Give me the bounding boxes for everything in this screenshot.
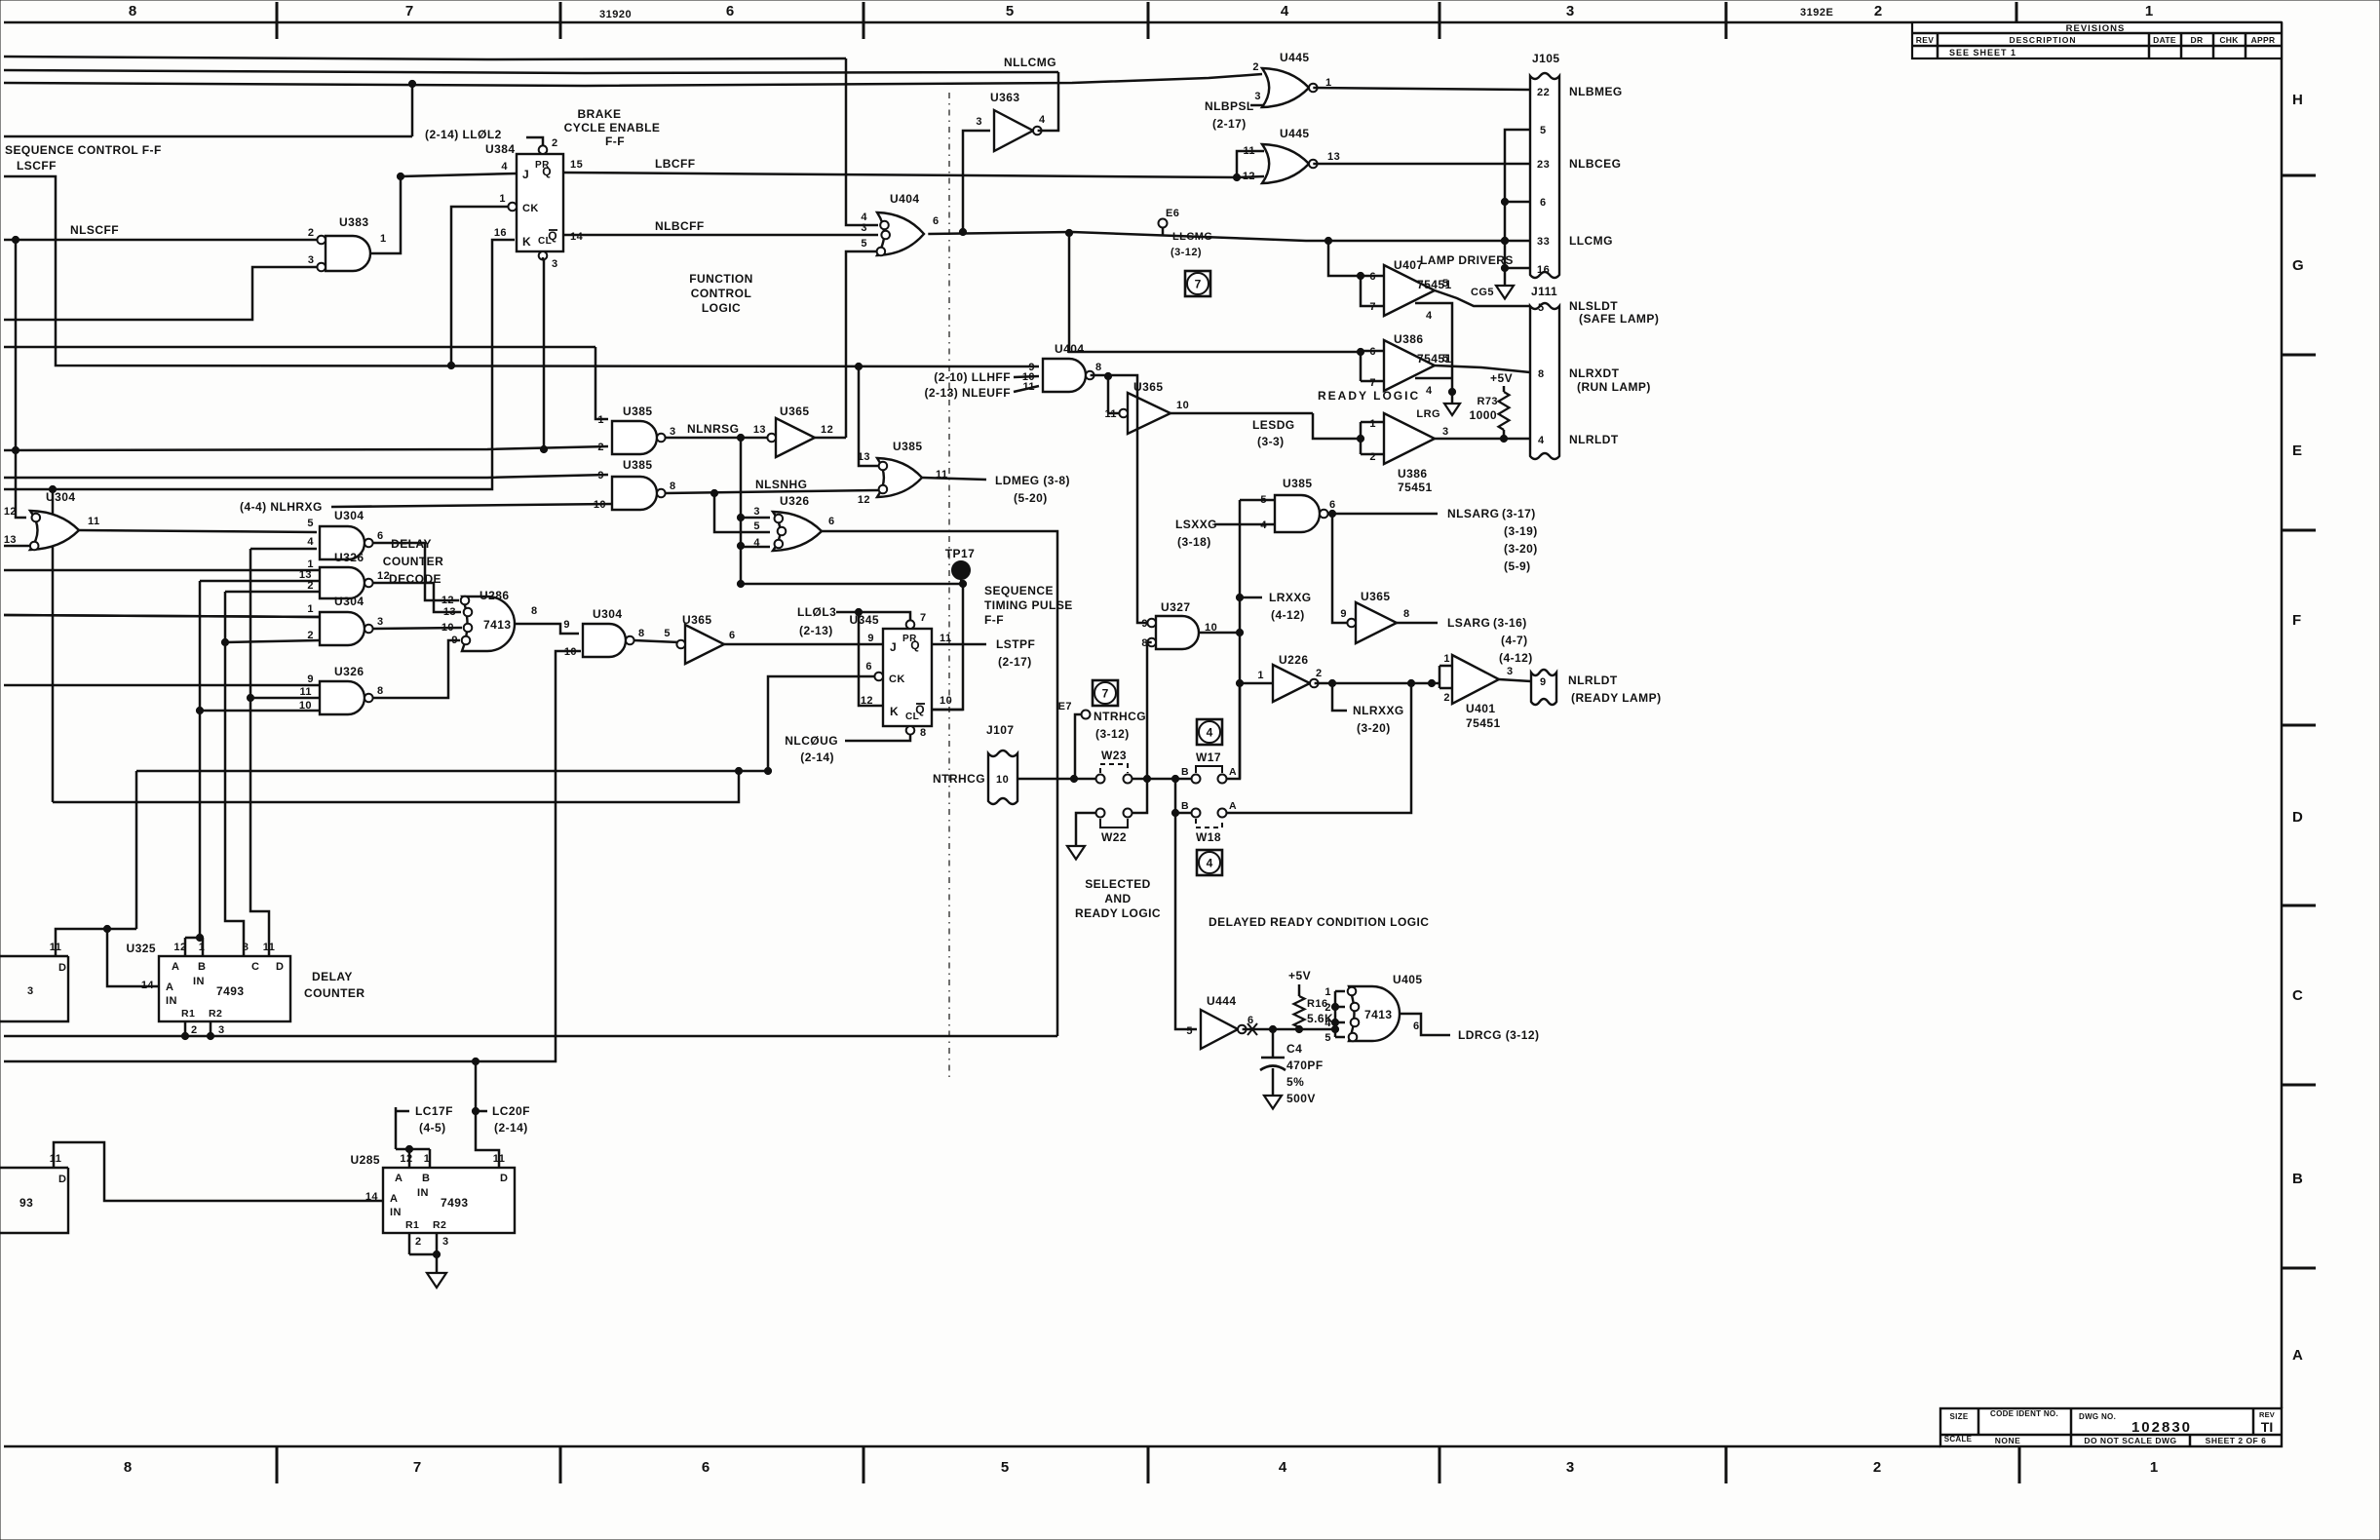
wire NLNRSG vert x760 — [740, 438, 743, 584]
wire LDRCG out — [1400, 1014, 1450, 1035]
svg-text:W17: W17 — [1196, 751, 1221, 764]
svg-text:B: B — [1181, 766, 1189, 778]
svg-text:500V: 500V — [1286, 1092, 1316, 1105]
svg-text:12: 12 — [861, 695, 873, 707]
svg-text:5: 5 — [861, 238, 867, 250]
svg-text:J: J — [522, 168, 529, 181]
svg-text:U325: U325 — [127, 942, 157, 955]
gate U363 inverter — [994, 110, 1033, 151]
wire U445b pin11 feed — [1237, 151, 1264, 177]
svg-text:3: 3 — [1442, 426, 1449, 438]
wire U304d pin1 feed — [4, 615, 320, 617]
svg-text:1: 1 — [1324, 986, 1331, 998]
svg-text:75451: 75451 — [1466, 716, 1501, 730]
svg-text:CK: CK — [522, 203, 539, 214]
svg-text:AND: AND — [1104, 892, 1131, 905]
wire U384 CL drop x558 — [543, 257, 546, 449]
counter U285 7493 — [383, 1168, 515, 1233]
wire vert x868 to U404a pin4 — [846, 58, 878, 225]
svg-text:(3-12): (3-12) — [1095, 727, 1130, 741]
ground CG5 — [1496, 286, 1514, 299]
gate U304a NOR — [30, 511, 79, 550]
wire left counter2 D to U285 A IN — [54, 1142, 383, 1201]
wire W18 B vert down to U444 — [1175, 813, 1197, 1029]
gate U304e NAND — [583, 624, 626, 657]
svg-text:G: G — [2292, 257, 2304, 274]
svg-text:(5-20): (5-20) — [1014, 491, 1048, 505]
svg-text:(4-5): (4-5) — [419, 1121, 446, 1135]
svg-text:NLRXDT: NLRXDT — [1569, 366, 1620, 380]
wire CK tap from LSCFF line — [451, 207, 509, 366]
svg-text:Q: Q — [915, 703, 925, 716]
svg-text:8: 8 — [124, 1459, 132, 1476]
wire vert x16 — [15, 240, 18, 450]
svg-text:U326: U326 — [334, 665, 365, 678]
svg-text:IN: IN — [193, 976, 205, 987]
svg-text:1: 1 — [2145, 3, 2153, 19]
svg-text:(4-12): (4-12) — [1499, 651, 1533, 665]
svg-text:3: 3 — [377, 616, 384, 628]
jumper W18 — [1192, 809, 1201, 818]
svg-text:U326: U326 — [334, 551, 365, 564]
svg-text:5: 5 — [307, 518, 314, 529]
ground below C4 — [1264, 1096, 1282, 1109]
wire U407 input bracket — [1361, 276, 1384, 306]
svg-text:9: 9 — [1340, 608, 1347, 620]
svg-text:7493: 7493 — [441, 1196, 469, 1210]
wire U365 LESDG in — [1108, 412, 1119, 415]
wire U386b out to J111-4 — [1435, 438, 1530, 441]
svg-text:LC20F: LC20F — [492, 1104, 530, 1118]
svg-text:1: 1 — [380, 233, 387, 245]
svg-text:+5V: +5V — [1288, 969, 1311, 982]
svg-text:3: 3 — [1566, 1459, 1574, 1476]
wire U405 input bracket — [1334, 991, 1337, 1037]
wire left counter D to U325 A IN — [56, 929, 159, 986]
svg-text:2: 2 — [1316, 668, 1323, 679]
wire U385d pin13 feed — [859, 366, 879, 466]
wire NLSARG branch to U365d — [1332, 514, 1352, 623]
svg-text:IN: IN — [390, 1207, 402, 1218]
revisions block — [1912, 22, 2282, 58]
svg-text:1: 1 — [307, 603, 314, 615]
svg-text:A: A — [1229, 800, 1237, 812]
U384 pin2 PR bubble — [539, 145, 548, 154]
wire U404a pin5 feed — [846, 251, 877, 438]
wire U445a out to J105-22 — [1313, 88, 1530, 90]
svg-text:6: 6 — [1413, 1020, 1420, 1032]
svg-text:H: H — [2292, 92, 2303, 108]
svg-text:B: B — [198, 961, 206, 973]
wire U386a out to J111-8 — [1435, 366, 1530, 372]
wire U385c pin5 feed — [1240, 499, 1275, 502]
wire U326 out to x1085 — [822, 531, 1057, 1036]
svg-text:B: B — [2292, 1171, 2303, 1187]
svg-text:U304: U304 — [334, 509, 365, 522]
svg-text:E: E — [2292, 443, 2302, 459]
svg-text:CHK: CHK — [2219, 35, 2239, 45]
svg-text:1000: 1000 — [1470, 408, 1498, 422]
svg-text:1: 1 — [1443, 653, 1450, 665]
svg-text:E7: E7 — [1058, 701, 1072, 712]
svg-text:2: 2 — [191, 1024, 198, 1036]
wire J105 pin5/6/16 tie bus — [1505, 130, 1530, 286]
svg-text:DR: DR — [2191, 35, 2204, 45]
gate U365 LESDG buffer — [1128, 393, 1171, 434]
svg-text:DELAY: DELAY — [391, 537, 432, 551]
svg-text:U383: U383 — [339, 215, 369, 229]
svg-text:3: 3 — [442, 1236, 449, 1248]
svg-text:6: 6 — [1329, 499, 1336, 511]
svg-text:10: 10 — [940, 695, 952, 707]
svg-text:R1: R1 — [405, 1219, 419, 1231]
svg-text:5: 5 — [1324, 1032, 1331, 1044]
svg-text:(3-16): (3-16) — [1493, 616, 1527, 630]
svg-text:75451: 75451 — [1398, 481, 1433, 494]
wire U304b out to U286 — [373, 543, 459, 600]
wire U326 pin4 feed — [741, 546, 770, 549]
svg-text:U386: U386 — [1398, 467, 1428, 481]
svg-text:TI: TI — [2261, 1419, 2273, 1435]
decode vertical xA — [199, 581, 202, 938]
wire U226 input — [1240, 682, 1273, 685]
wire U444 out — [1243, 1028, 1335, 1031]
svg-text:C: C — [251, 961, 259, 973]
wire NLNRSG branch to TP17 line — [741, 584, 963, 710]
svg-text:COUNTER: COUNTER — [383, 555, 443, 568]
svg-text:BRAKE: BRAKE — [578, 107, 622, 121]
svg-text:SEE SHEET 1: SEE SHEET 1 — [1949, 48, 2016, 58]
svg-text:12: 12 — [858, 494, 870, 506]
wire bus y585 U326a pin1 — [4, 569, 321, 572]
wire bus y490 to U385b pin9 — [4, 475, 608, 478]
svg-text:3: 3 — [1507, 666, 1514, 677]
svg-text:(2-17): (2-17) — [1212, 117, 1247, 131]
svg-text:U365: U365 — [682, 613, 712, 627]
wire U345 Q out LSTPF — [932, 643, 986, 646]
svg-text:31920: 31920 — [599, 9, 632, 20]
svg-text:D: D — [276, 961, 284, 973]
svg-text:1: 1 — [2150, 1459, 2158, 1476]
svg-text:2: 2 — [552, 137, 558, 149]
svg-text:U404: U404 — [1055, 342, 1085, 356]
wire reset bus y1063 — [4, 1035, 1057, 1038]
svg-text:3: 3 — [861, 222, 867, 234]
svg-text:9: 9 — [867, 633, 874, 644]
svg-text:(3-12): (3-12) — [1171, 247, 1202, 258]
svg-text:3: 3 — [1566, 3, 1574, 19]
svg-text:11: 11 — [88, 516, 100, 527]
svg-text:4: 4 — [1260, 520, 1267, 531]
wire bus y462 to U385a pin2 — [4, 446, 608, 450]
svg-text:9: 9 — [1540, 676, 1547, 688]
wire U365 LESDG out — [1171, 412, 1313, 415]
wire bus y356 — [4, 346, 595, 349]
svg-text:2: 2 — [1443, 692, 1450, 704]
svg-text:NTRHCG: NTRHCG — [1094, 710, 1146, 723]
wire NLLCMG loop — [1038, 72, 1058, 131]
svg-text:15: 15 — [570, 159, 583, 171]
svg-text:7: 7 — [413, 1459, 421, 1476]
svg-text:F-F: F-F — [605, 135, 625, 148]
wire LL0L3 to K — [859, 612, 883, 706]
connector J111 — [1530, 303, 1559, 459]
svg-text:23: 23 — [1537, 159, 1550, 171]
wire U345 CL NLC0UG — [845, 735, 910, 741]
wire NLSARG out — [1328, 513, 1438, 516]
svg-text:(3-20): (3-20) — [1357, 721, 1391, 735]
wire U383 output to node — [370, 176, 401, 253]
wire U345 Qbar out — [932, 709, 963, 712]
gate U407 driver 75451 — [1384, 265, 1435, 316]
wire U407 out to J111-5 — [1435, 290, 1530, 306]
svg-text:(3-20): (3-20) — [1504, 542, 1538, 556]
svg-text:7: 7 — [1369, 377, 1376, 389]
svg-text:5: 5 — [1442, 353, 1449, 365]
svg-text:NLCØUG: NLCØUG — [785, 734, 838, 748]
U285 R pins to ground — [408, 1233, 411, 1254]
svg-text:REV: REV — [1916, 35, 1934, 45]
wire NLBPSL to U445a pin3 — [1250, 104, 1264, 107]
wire U345 CK feed — [768, 676, 874, 771]
svg-text:5: 5 — [1260, 494, 1267, 506]
svg-text:6: 6 — [933, 215, 940, 227]
svg-text:4: 4 — [1279, 1459, 1287, 1476]
svg-text:4: 4 — [1538, 435, 1545, 446]
wire NLHRXG to pin10 — [331, 504, 612, 507]
svg-text:Q: Q — [542, 165, 552, 178]
wire U404a output to J105-33 LLCMG — [928, 232, 1530, 241]
svg-text:NLSLDT: NLSLDT — [1569, 299, 1618, 313]
svg-text:4: 4 — [1207, 726, 1213, 740]
svg-text:READY LOGIC: READY LOGIC — [1318, 389, 1420, 403]
wire U401 bracket — [1432, 682, 1440, 685]
svg-text:LBCFF: LBCFF — [655, 157, 696, 171]
wire U304b pin4 feed — [250, 548, 317, 551]
svg-text:3: 3 — [753, 506, 760, 518]
svg-text:A: A — [2292, 1347, 2303, 1364]
svg-text:COUNTER: COUNTER — [304, 986, 365, 1000]
gate U383 NAND — [326, 236, 370, 271]
right zone ticks — [2282, 174, 2316, 177]
gate U386a driver 75451 — [1384, 340, 1435, 391]
svg-text:DELAYED READY CONDITION: DELAYED READY CONDITION LOGIC — [1209, 915, 1429, 929]
svg-text:9: 9 — [451, 635, 458, 646]
wire U326b pin11 feed — [250, 697, 320, 700]
svg-text:5: 5 — [1442, 278, 1449, 289]
svg-text:NLSCFF: NLSCFF — [70, 223, 119, 237]
boxed 7 symbol E6 — [1185, 271, 1210, 296]
svg-text:(2-14) LLØL2: (2-14) LLØL2 — [425, 128, 502, 141]
svg-text:NLBCEG: NLBCEG — [1569, 157, 1621, 171]
svg-text:10: 10 — [441, 622, 454, 634]
svg-text:NLNRSG: NLNRSG — [687, 422, 739, 436]
svg-text:93: 93 — [19, 1196, 33, 1210]
svg-text:7413: 7413 — [1364, 1008, 1393, 1021]
svg-text:LLØL3: LLØL3 — [797, 605, 836, 619]
gate U304b NAND — [320, 526, 365, 559]
wire LLHFF label — [1014, 376, 1039, 377]
svg-text:C4: C4 — [1286, 1042, 1302, 1056]
wire U383 pin3 feed — [4, 267, 322, 320]
svg-text:8: 8 — [1095, 362, 1102, 373]
wire U386a input feed — [1069, 233, 1361, 352]
svg-text:SELECTED: SELECTED — [1085, 877, 1151, 891]
wire U327 pin8 feed — [1147, 641, 1152, 644]
svg-text:3: 3 — [670, 426, 676, 438]
wire y823 run — [53, 771, 739, 802]
svg-text:11: 11 — [263, 942, 276, 953]
wire LSCFF entry — [4, 176, 1039, 366]
U407 pin4 stub — [1415, 303, 1452, 392]
svg-text:D: D — [500, 1173, 508, 1184]
wire U304d pin2 feed — [225, 640, 320, 642]
svg-text:Q: Q — [910, 638, 920, 652]
U325 R pins to reset bus — [184, 1021, 187, 1036]
gate U385a NAND — [612, 421, 657, 454]
svg-text:LOGIC: LOGIC — [702, 301, 741, 315]
svg-text:B: B — [1181, 800, 1189, 812]
svg-text:A: A — [390, 1193, 398, 1205]
svg-text:J111: J111 — [1531, 285, 1557, 298]
wire U326a pin2 feed — [225, 591, 320, 594]
svg-text:CK: CK — [889, 674, 905, 685]
wire W22 left to ground — [1076, 813, 1096, 846]
svg-text:11: 11 — [940, 633, 952, 644]
svg-text:2: 2 — [1324, 1002, 1331, 1014]
wire junction to U385d — [855, 363, 862, 369]
svg-text:DECODE: DECODE — [389, 572, 441, 586]
svg-text:U363: U363 — [990, 91, 1020, 104]
svg-text:4: 4 — [1207, 857, 1213, 870]
gate U326d NOR3 — [773, 512, 822, 551]
svg-text:CONTROL: CONTROL — [691, 287, 751, 300]
svg-text:NLSNHG: NLSNHG — [755, 478, 807, 491]
svg-text:6: 6 — [1369, 346, 1376, 358]
svg-text:D: D — [58, 962, 66, 974]
capacitor C4 — [1272, 1029, 1275, 1058]
svg-text:5: 5 — [1001, 1459, 1009, 1476]
connector J107 — [988, 751, 1017, 804]
svg-text:(2-14): (2-14) — [800, 751, 834, 764]
U384 CL bubble pin3 — [539, 251, 548, 260]
svg-text:6: 6 — [828, 516, 835, 527]
svg-text:LRG: LRG — [1416, 408, 1440, 420]
connector J105 — [1530, 73, 1559, 278]
svg-text:U304: U304 — [334, 595, 365, 608]
svg-text:NONE: NONE — [1995, 1436, 2021, 1445]
gate U445a NOR — [1262, 68, 1309, 107]
svg-text:2: 2 — [1873, 1459, 1881, 1476]
bottom zone ticks — [276, 1446, 279, 1483]
svg-text:U445: U445 — [1280, 51, 1310, 64]
svg-text:DESCRIPTION: DESCRIPTION — [2009, 35, 2076, 45]
svg-text:33: 33 — [1537, 236, 1550, 248]
svg-text:U404: U404 — [890, 192, 920, 206]
svg-text:1: 1 — [1369, 418, 1376, 430]
svg-text:(2-13) NLEUFF: (2-13) NLEUFF — [924, 386, 1011, 400]
svg-text:LDRCG (3-12): LDRCG (3-12) — [1458, 1028, 1539, 1042]
svg-text:Q: Q — [548, 229, 557, 243]
wire U386b bracket — [1360, 422, 1363, 454]
wire U326 pin3 feed — [741, 517, 770, 520]
svg-text:7: 7 — [920, 612, 927, 624]
svg-text:2: 2 — [597, 442, 604, 453]
svg-text:U385: U385 — [623, 404, 653, 418]
wire y791 run — [135, 771, 138, 929]
terminal E6 — [1162, 226, 1165, 235]
svg-text:TP17: TP17 — [945, 547, 975, 560]
svg-text:(2-13): (2-13) — [799, 624, 833, 637]
svg-text:U327: U327 — [1161, 600, 1191, 614]
wire U363 pin3 feed vert — [963, 131, 990, 232]
boxed 7 symbol E7 — [1093, 680, 1118, 706]
svg-text:LC17F: LC17F — [415, 1104, 453, 1118]
wire bus y560 U304a pin13 — [4, 545, 30, 548]
gate U385c NAND — [1275, 495, 1320, 532]
svg-text:12: 12 — [441, 595, 454, 606]
wire W18 B left — [1175, 812, 1191, 815]
wire U327 pin8 drop x1177 — [1146, 642, 1149, 779]
decode vertical xB — [225, 592, 244, 956]
gate U326a NAND3 — [320, 567, 365, 598]
svg-text:2: 2 — [1252, 61, 1259, 73]
wire LLCMG to U407 inputs — [1328, 241, 1361, 276]
svg-text:NLBPSL: NLBPSL — [1205, 99, 1254, 113]
svg-text:1: 1 — [1257, 670, 1264, 681]
svg-text:K: K — [522, 235, 531, 249]
wire bus y703 U326b pin9 — [4, 684, 321, 687]
wire NLSCFF entry — [4, 239, 322, 242]
ground below W22 — [1067, 846, 1085, 860]
svg-text:4: 4 — [1281, 3, 1289, 19]
svg-text:(2-10) LLHFF: (2-10) LLHFF — [934, 370, 1011, 384]
wire NLNRSG — [666, 437, 771, 440]
svg-text:470PF: 470PF — [1286, 1059, 1324, 1072]
svg-text:U405: U405 — [1393, 973, 1423, 986]
svg-text:9: 9 — [1141, 618, 1148, 630]
wire W22 right — [1132, 779, 1147, 813]
wire LSXXG chain vert x1272 — [1239, 500, 1242, 779]
svg-text:8: 8 — [531, 605, 538, 617]
svg-text:(4-12): (4-12) — [1271, 608, 1305, 622]
wire U326 pin5 feed — [714, 493, 770, 532]
gate U404b NAND3 — [1043, 359, 1086, 392]
svg-text:U326: U326 — [780, 494, 810, 508]
svg-text:NTRHCG: NTRHCG — [933, 772, 985, 786]
gate U286 NAND4 7413 — [462, 597, 515, 651]
svg-text:8: 8 — [1403, 608, 1410, 620]
gate U365a buffer — [776, 418, 815, 457]
wire J107 pin10 row — [1017, 778, 1096, 781]
svg-text:6: 6 — [702, 1459, 710, 1476]
svg-text:(3-19): (3-19) — [1504, 524, 1538, 538]
svg-text:6: 6 — [729, 630, 736, 641]
gate U326b NAND3 — [320, 681, 365, 714]
svg-text:F: F — [2292, 612, 2301, 629]
wire LL0L2 to PR — [526, 137, 543, 145]
svg-text:R73: R73 — [1477, 396, 1498, 407]
svg-text:CG5: CG5 — [1471, 287, 1494, 298]
svg-text:CYCLE ENABLE: CYCLE ENABLE — [564, 121, 661, 135]
svg-text:3: 3 — [27, 985, 34, 997]
svg-text:B: B — [422, 1173, 430, 1184]
gate U445b NOR — [1262, 144, 1309, 183]
svg-text:4: 4 — [307, 536, 314, 548]
svg-text:C: C — [2292, 987, 2303, 1004]
wire bus y631 U304d pin1 — [4, 615, 321, 617]
svg-text:SIZE: SIZE — [1950, 1412, 1969, 1421]
